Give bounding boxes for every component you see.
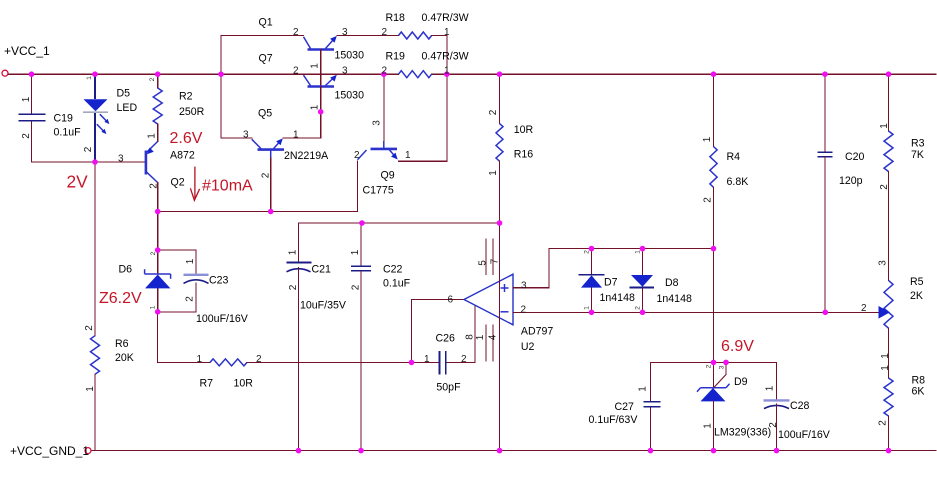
svg-text:1: 1	[405, 150, 411, 161]
svg-text:1n4148: 1n4148	[657, 293, 692, 305]
svg-text:C20: C20	[845, 151, 865, 163]
svg-text:1: 1	[444, 66, 450, 77]
svg-text:C26: C26	[436, 332, 456, 344]
svg-text:1: 1	[424, 354, 430, 365]
svg-text:2.6V: 2.6V	[170, 130, 203, 147]
svg-text:0.1uF: 0.1uF	[54, 127, 82, 139]
svg-text:2: 2	[583, 250, 590, 254]
svg-text:5: 5	[478, 260, 489, 266]
svg-text:3: 3	[342, 27, 348, 38]
svg-text:2: 2	[351, 284, 362, 290]
svg-text:6: 6	[448, 295, 454, 306]
svg-text:50pF: 50pF	[436, 382, 461, 394]
svg-text:1: 1	[880, 365, 891, 371]
svg-text:6.9V: 6.9V	[721, 338, 754, 355]
svg-text:3: 3	[243, 129, 249, 140]
svg-text:1: 1	[146, 133, 157, 139]
svg-text:C19: C19	[54, 113, 74, 125]
svg-text:1: 1	[765, 385, 776, 391]
svg-text:R6: R6	[115, 338, 129, 350]
svg-text:2: 2	[150, 251, 157, 255]
svg-text:D7: D7	[604, 277, 618, 289]
svg-text:C22: C22	[383, 264, 403, 276]
svg-text:3: 3	[118, 153, 124, 164]
svg-text:1: 1	[488, 170, 499, 176]
svg-text:C28: C28	[790, 400, 810, 412]
svg-text:D6: D6	[119, 264, 133, 276]
svg-text:R3: R3	[911, 138, 925, 150]
svg-text:A872: A872	[170, 150, 195, 162]
svg-text:2: 2	[861, 303, 867, 314]
svg-text:R19: R19	[386, 50, 406, 62]
svg-text:2: 2	[634, 306, 641, 310]
svg-text:D8: D8	[665, 277, 679, 289]
svg-text:3: 3	[878, 260, 889, 266]
svg-text:Q5: Q5	[258, 108, 272, 120]
svg-text:1: 1	[86, 76, 93, 80]
svg-text:2: 2	[149, 77, 156, 81]
svg-text:D9: D9	[734, 376, 748, 388]
svg-text:7: 7	[490, 258, 501, 264]
svg-text:1: 1	[350, 249, 361, 255]
svg-text:3: 3	[372, 120, 383, 126]
svg-text:0.47R/3W: 0.47R/3W	[422, 12, 469, 24]
svg-text:Z6.2V: Z6.2V	[99, 290, 142, 307]
svg-text:Q1: Q1	[259, 17, 273, 29]
svg-text:3: 3	[718, 365, 725, 369]
svg-text:1: 1	[703, 423, 714, 429]
svg-text:1: 1	[293, 129, 299, 140]
svg-text:4: 4	[488, 334, 499, 340]
svg-text:250R: 250R	[179, 106, 205, 118]
svg-text:3: 3	[342, 66, 348, 77]
svg-text:2: 2	[461, 354, 467, 365]
svg-text:120p: 120p	[839, 175, 863, 187]
svg-text:0.1uF/63V: 0.1uF/63V	[589, 414, 639, 426]
svg-text:R18: R18	[386, 12, 406, 24]
svg-text:1: 1	[475, 334, 486, 340]
svg-text:+VCC_1: +VCC_1	[4, 44, 50, 58]
svg-text:2: 2	[293, 66, 299, 77]
svg-text:8: 8	[465, 334, 476, 340]
svg-text:C27: C27	[615, 401, 635, 413]
svg-text:2: 2	[256, 354, 262, 365]
svg-text:1n4148: 1n4148	[600, 292, 635, 304]
svg-text:0.1uF: 0.1uF	[383, 278, 411, 290]
svg-text:Q2: Q2	[171, 177, 185, 189]
svg-text:2: 2	[521, 304, 527, 315]
svg-text:LM329(336): LM329(336)	[714, 427, 771, 439]
svg-text:2: 2	[185, 296, 196, 302]
svg-text:1: 1	[879, 123, 890, 129]
svg-text:2: 2	[878, 420, 889, 426]
svg-text:2: 2	[84, 325, 95, 331]
svg-text:6K: 6K	[912, 386, 925, 398]
svg-text:1: 1	[21, 96, 32, 102]
svg-text:10R: 10R	[514, 124, 534, 136]
svg-text:2: 2	[703, 197, 714, 203]
svg-text:1: 1	[185, 258, 196, 264]
svg-text:2: 2	[261, 172, 272, 178]
svg-text:R7: R7	[200, 378, 214, 390]
svg-text:R5: R5	[910, 276, 924, 288]
svg-text:2K: 2K	[910, 290, 923, 302]
svg-text:15030: 15030	[335, 90, 365, 102]
svg-text:20K: 20K	[115, 352, 134, 364]
svg-text:100uF/16V: 100uF/16V	[778, 429, 831, 441]
svg-text:2: 2	[148, 183, 159, 189]
svg-text:R16: R16	[514, 149, 534, 161]
svg-text:1: 1	[638, 386, 649, 392]
svg-text:0.47R/3W: 0.47R/3W	[422, 50, 469, 62]
svg-text:100uF/16V: 100uF/16V	[196, 313, 249, 325]
svg-text:1: 1	[702, 136, 713, 142]
svg-text:3: 3	[521, 280, 527, 291]
svg-text:2V: 2V	[67, 172, 89, 192]
svg-text:1: 1	[583, 306, 590, 310]
svg-text:6.8K: 6.8K	[727, 176, 749, 188]
svg-text:1: 1	[288, 249, 299, 255]
svg-text:2: 2	[879, 184, 890, 190]
svg-text:2N2219A: 2N2219A	[284, 150, 329, 162]
svg-text:C21: C21	[312, 264, 332, 276]
svg-text:LED: LED	[117, 102, 138, 114]
svg-text:D5: D5	[117, 88, 131, 100]
svg-text:2: 2	[705, 364, 712, 368]
svg-text:Q7: Q7	[259, 53, 273, 65]
svg-text:#10mA: #10mA	[202, 178, 253, 195]
svg-text:2: 2	[382, 66, 388, 77]
svg-text:2: 2	[768, 422, 779, 428]
svg-text:1: 1	[309, 63, 320, 69]
svg-text:10uF/35V: 10uF/35V	[300, 300, 347, 312]
svg-text:1: 1	[85, 386, 96, 392]
svg-text:2: 2	[354, 150, 360, 161]
svg-text:15030: 15030	[335, 50, 365, 62]
svg-text:Q9: Q9	[381, 170, 395, 182]
svg-text:1: 1	[150, 305, 157, 309]
svg-text:C1775: C1775	[363, 185, 394, 197]
svg-text:R2: R2	[179, 91, 193, 103]
svg-text:2: 2	[293, 27, 299, 38]
svg-text:2: 2	[288, 284, 299, 290]
svg-text:1: 1	[444, 27, 450, 38]
svg-text:AD797: AD797	[521, 326, 553, 338]
svg-text:2: 2	[21, 133, 32, 139]
svg-text:1: 1	[197, 354, 203, 365]
svg-text:1: 1	[634, 250, 641, 254]
svg-text:7K: 7K	[911, 149, 924, 161]
svg-text:1: 1	[310, 104, 321, 110]
svg-text:2: 2	[488, 109, 499, 115]
svg-text:R4: R4	[727, 151, 741, 163]
svg-text:2: 2	[382, 27, 388, 38]
svg-text:10R: 10R	[234, 378, 254, 390]
svg-text:U2: U2	[521, 341, 535, 353]
svg-text:1: 1	[880, 353, 891, 359]
svg-text:C23: C23	[209, 275, 229, 287]
svg-text:2: 2	[83, 146, 94, 152]
svg-text:+VCC_GND_1: +VCC_GND_1	[10, 444, 89, 458]
